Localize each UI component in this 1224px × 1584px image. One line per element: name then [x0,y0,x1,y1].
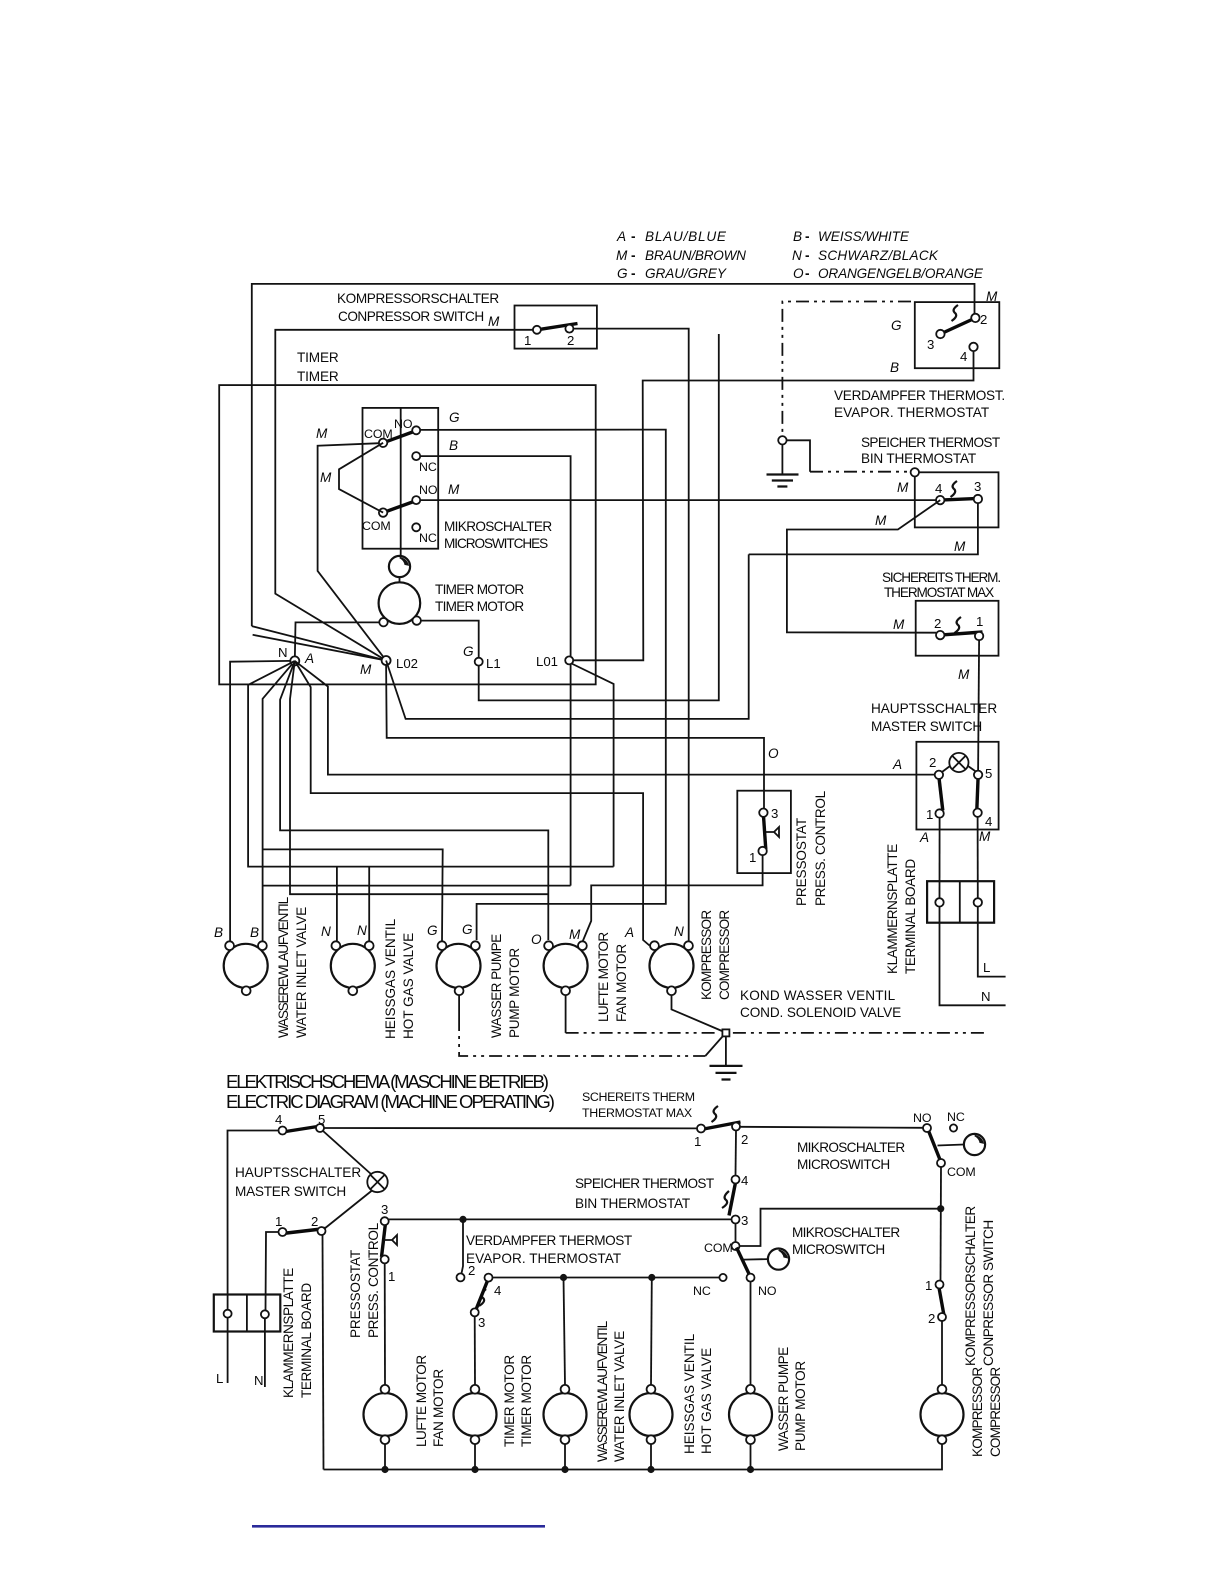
terminal M5 bottom [667,986,676,995]
wire bin 3 down to microswitch COM [735,1224,737,1243]
svg-text:VERDAMPFER THERMOST: VERDAMPFER THERMOST [466,1233,632,1248]
svg-text:B: B [890,360,899,375]
wire N heissgas right terminal drop [368,867,370,941]
pressostat blade 3-1 [763,815,765,850]
wire A master 1 to terminal board [939,818,941,898]
terminal verdampfer 3 [936,330,944,338]
terminal board circle M [974,898,982,906]
switch blade S1 [537,324,578,330]
svg-text:G: G [463,644,474,659]
actuator blob upper ms [938,1134,986,1155]
terminal water inlet lower bottom [561,1435,570,1444]
svg-text:1: 1 [275,1214,282,1229]
wire COM down through junction to compressor switch 1 [940,1167,943,1281]
svg-text:TIMER: TIMER [297,350,339,365]
svg-text:M: M [893,617,905,632]
wire M second diagonal to node L02 [253,635,387,661]
terminal master lower 2 [318,1227,326,1235]
terminal U1 COM2 [379,508,387,516]
terminal M5 right [684,941,693,950]
svg-text:WEISS/WHITE: WEISS/WHITE [818,229,910,244]
svg-text:M: M [875,513,887,528]
terminal U1 NC1 [412,452,420,460]
wire drop to water inlet valve motor [564,1278,566,1386]
terminal M1 bottom [242,986,251,995]
svg-text:M: M [316,426,328,441]
svg-text:HAUPTSSCHALTER: HAUPTSSCHALTER [871,701,997,716]
capillary dash-dot verdampfer to sensor bulb [782,302,911,437]
svg-text:NO: NO [913,1111,932,1125]
svg-text:CONPRESSOR SWITCH: CONPRESSOR SWITCH [981,1220,996,1366]
wire B node N fan ray to motor1 left [230,661,290,941]
svg-text:COMPRESSOR: COMPRESSOR [717,910,732,1000]
decoration blue rule [252,1525,545,1528]
svg-text:MICROSWITCHES: MICROSWITCHES [444,536,548,551]
svg-text:TIMER MOTOR: TIMER MOTOR [435,582,524,597]
terminal pressostat lower 1 [381,1255,389,1263]
microswitch blade NO-COM [928,1130,941,1162]
svg-text:2: 2 [980,312,987,327]
wire L master 4 to terminal board lower [228,1131,279,1311]
terminal master 2 [935,771,943,779]
svg-text:SPEICHER THERMOST: SPEICHER THERMOST [575,1176,714,1191]
wire verdampfer lower 3 to timer motor [474,1316,476,1385]
wire G from NO1 to pump motor right terminal [420,430,666,940]
svg-text:1: 1 [388,1269,395,1284]
wire water pump left terminal row [263,849,443,941]
pressostat S3 pressure control [737,791,791,873]
terminal master lower 1 [279,1228,287,1236]
svg-text:3: 3 [741,1213,748,1228]
node L1 terminal [463,644,501,671]
svg-text:PRESSOSTAT: PRESSOSTAT [794,818,809,906]
node L01 terminal [536,654,573,669]
wire B from NC1 through L01 down to row [420,456,570,885]
safety thermostat B4 sichereits [882,570,1001,656]
svg-text:NC: NC [419,531,437,545]
svg-text:M: M [320,470,332,485]
terminal M3 right [471,941,480,950]
svg-text:M: M [897,480,909,495]
svg-text:2: 2 [567,333,574,348]
svg-text:L: L [216,1371,223,1386]
terminal safety lower 1 [697,1125,705,1133]
terminal verdampfer 4 [969,343,977,351]
svg-text:NC: NC [419,460,437,474]
terminal safety lower 2 [732,1123,740,1131]
wire drop to hot gas valve motor [650,1278,653,1386]
master switch S2b lower [235,1112,361,1229]
svg-text:L1: L1 [486,656,501,671]
terminal hot gas lower bottom [647,1435,656,1444]
wire pressostat 1 to fan motor right terminal [582,855,762,942]
svg-text:G: G [617,266,628,281]
master lower blade 4-5 [283,1126,325,1133]
svg-text:HEISSGAS VENTIL: HEISSGAS VENTIL [682,1333,697,1454]
junction dot bus water inlet [561,1466,568,1473]
svg-text:B: B [250,925,259,940]
wire master 1 to terminal board lower [266,1232,279,1311]
microswitch 1 labels COM NO NC [364,410,460,474]
svg-text:-: - [631,266,635,281]
svg-text:MASTER SWITCH: MASTER SWITCH [871,719,982,734]
svg-text:A: A [616,229,626,244]
svg-text:KOMPRESSOR: KOMPRESSOR [699,910,714,1000]
svg-text:1: 1 [976,614,983,629]
svg-text:ELEKTRISCHSCHEMA (MASCHINE BET: ELEKTRISCHSCHEMA (MASCHINE BETRIEB) [226,1071,549,1092]
svg-text:2: 2 [741,1132,748,1147]
wire master 2 down to bottom bus [323,1235,324,1470]
terminal sichereits 2 [936,631,944,639]
svg-text:L: L [983,960,990,975]
svg-text:COM: COM [364,427,393,441]
terminal bin lower 3 [732,1216,740,1224]
wire M bin terminal 4 diagonal to safety thermostat terminal 2 [787,500,940,633]
svg-text:COMPRESSOR: COMPRESSOR [988,1367,1003,1457]
ground sensor verdampfer [767,445,799,487]
svg-text:VERDAMPFER THERMOST.: VERDAMPFER THERMOST. [834,388,1005,403]
svg-text:NO: NO [394,417,413,431]
svg-text:M: M [979,829,991,844]
wire pressostat lower 1 to fan motor [384,1263,386,1385]
svg-text:3: 3 [771,806,778,821]
wire safety 2 to microswitch NO [740,1127,923,1128]
terminal M4 left [544,941,553,950]
svg-text:5: 5 [985,766,992,781]
svg-text:TIMER: TIMER [297,369,339,384]
pressostat lower [348,1202,395,1338]
blade compressor switch lower [939,1286,944,1316]
water inlet valve M1 [214,896,309,1038]
verdampfer thermostat B2 evaporator [834,302,1005,420]
squiggle verdampfer lower [479,1289,486,1306]
svg-text:-: - [631,229,635,244]
terminal master lower 5 [316,1124,324,1132]
svg-text:3: 3 [974,479,981,494]
svg-text:SPEICHER THERMOST: SPEICHER THERMOST [861,435,1000,450]
svg-text:3: 3 [478,1315,485,1330]
wire junction to COM of lower microswitch [740,1209,941,1246]
svg-text:LUFTE MOTOR: LUFTE MOTOR [596,932,611,1022]
wire NC row from verdampfer 4 [492,1277,719,1279]
wire M bin terminal 3 down and left [749,503,978,554]
bottom neutral bus [324,1444,943,1469]
svg-text:4: 4 [985,814,992,829]
terminal U1 NO2 [412,496,420,504]
terminal master 5 [974,771,982,779]
hot gas valve M2 [321,918,416,1039]
water pump motor M3 [427,922,522,1038]
svg-text:COM: COM [362,519,391,533]
terminal U1 NO1 [412,426,420,434]
svg-text:A: A [892,757,902,772]
svg-text:MIKROSCHALTER: MIKROSCHALTER [792,1225,900,1240]
title electric diagram machine operating [226,1071,555,1112]
pilot lamp master switch [942,753,977,772]
svg-text:SICHEREITS THERM.: SICHEREITS THERM. [882,570,1001,585]
terminal NC lower ms open [719,1274,726,1281]
svg-text:4: 4 [960,349,967,364]
svg-text:L01: L01 [536,654,558,669]
hot gas valve lower [630,1333,715,1454]
svg-text:HAUPTSSCHALTER: HAUPTSSCHALTER [235,1165,361,1180]
svg-text:LUFTE MOTOR: LUFTE MOTOR [414,1355,429,1447]
wire M diagonal outer left edge to node L02 [252,626,386,660]
terminal verdampfer lower 2 [457,1273,465,1281]
wire junction down to verdampfer 2 [462,1219,464,1273]
svg-text:L02: L02 [396,656,418,671]
terminal pressostat 3 [759,809,767,817]
compressor switch lower [925,1206,996,1366]
svg-text:O: O [793,266,804,281]
wire M from S1-1 left and down to L02 [275,330,533,661]
terminal bin 3 [974,495,982,503]
terminal pressostat lower 3 [381,1217,389,1225]
terminal pump lower top [746,1385,755,1394]
svg-text:2: 2 [928,1311,935,1326]
terminal timer lower bottom [471,1435,480,1444]
svg-text:G: G [449,410,460,425]
svg-text:PRESS. CONTROL: PRESS. CONTROL [366,1222,381,1338]
svg-text:M: M [448,482,460,497]
svg-text:B: B [793,229,802,244]
svg-text:MICROSWITCH: MICROSWITCH [792,1242,885,1257]
terminal verdampfer lower 3 [471,1308,479,1316]
wire L lead [216,1318,228,1386]
terminal M4 right [578,941,587,950]
microswitch 2 blade COM-NO [383,500,418,513]
microswitches box U1 [363,408,553,551]
terminal M1 left [225,941,234,950]
terminal board lower circle N [261,1310,269,1318]
terminal pump lower bottom [746,1435,755,1444]
svg-text:N: N [792,248,802,263]
svg-text:A: A [304,651,314,666]
terminal M5 left [650,941,659,950]
svg-text:KLAMMERNSPLATTE: KLAMMERNSPLATTE [885,844,900,974]
fan motor lower [364,1355,447,1447]
svg-text:A: A [919,830,929,845]
safety lower blade 1-2 [701,1122,741,1130]
svg-text:TIMER MOTOR: TIMER MOTOR [519,1355,534,1447]
pilot lamp lower [367,1172,387,1192]
junction dot verdampfer feed [459,1216,466,1223]
terminal water inlet lower top [561,1385,570,1394]
svg-text:BIN THERMOSTAT: BIN THERMOSTAT [575,1196,690,1211]
terminal NO upper ms [923,1124,931,1132]
terminal board circle A [935,898,943,906]
svg-text:PUMP MOTOR: PUMP MOTOR [793,1361,808,1451]
terminal timer lower top [471,1385,480,1394]
junction dot bus hot gas [647,1466,654,1473]
terminal M2 bottom [348,986,357,995]
wire A node N fan ray to master switch terminal 2 [295,661,935,775]
terminal verdampfer lower 4 [485,1274,493,1282]
master blade 5-4 [977,777,978,811]
svg-text:1: 1 [926,807,933,822]
wire O node N fan ray to fan motor left terminal [280,661,548,940]
wire N heissgas left terminal drop [336,867,338,941]
wire M from L02 up to COM1 [316,426,386,661]
wire N lead [254,1319,265,1389]
svg-text:COM: COM [704,1241,733,1255]
svg-text:FAN MOTOR: FAN MOTOR [614,944,629,1022]
microswitch upper lower-diagram [797,1110,976,1179]
microswitch 2 labels COM NO NC [362,482,460,545]
svg-text:KLAMMERNSPLATTE: KLAMMERNSPLATTE [281,1268,296,1398]
verdampfer thermostat lower [466,1233,632,1330]
svg-text:WATER INLET VALVE: WATER INLET VALVE [612,1331,627,1462]
node N junction [278,645,314,666]
water inlet valve lower [544,1320,628,1462]
pressostat actuator [766,827,779,837]
terminal board lower [214,1268,314,1398]
terminal NO lower ms [747,1274,755,1282]
terminal COM upper ms [937,1159,945,1167]
svg-text:EVAPOR. THERMOSTAT: EVAPOR. THERMOSTAT [834,405,989,420]
junction dot bus fan [381,1466,388,1473]
capillary dash-dot to bin thermostat bulb [787,440,911,471]
wire M COM1 to COM2 jumper bracket [320,443,383,513]
compressor lower [921,1367,1004,1457]
svg-text:M: M [569,927,581,942]
terminal sichereits 1 [975,632,983,640]
terminal U1 COM1 [379,439,387,447]
terminal COM lower ms [732,1242,740,1250]
svg-text:TIMER MOTOR: TIMER MOTOR [502,1355,517,1447]
svg-text:HEISSGAS VENTIL: HEISSGAS VENTIL [383,918,398,1039]
terminal compressor lower top [938,1385,947,1394]
bin blade 4-3 [940,498,981,500]
master switch S2 hauptsschalter [871,701,999,845]
terminal compr switch lower 1 [936,1281,944,1289]
svg-text:TIMER MOTOR: TIMER MOTOR [435,599,524,614]
svg-text:NC: NC [693,1284,711,1298]
svg-text:KOMPRESSORSCHALTER: KOMPRESSORSCHALTER [963,1206,978,1366]
terminal master 4 [973,809,981,817]
bin thermostat B3 speicher [861,435,1000,527]
terminal board klammernsplatte upper [885,844,994,974]
svg-text:4: 4 [935,481,942,496]
svg-text:N: N [321,924,331,939]
svg-text:NC: NC [947,1110,965,1124]
terminal NC upper ms [950,1124,957,1131]
wire B row to motor1 right terminal [263,885,571,887]
wire M sichereits 1 down to master switch terminal 5 [958,640,979,771]
svg-text:4: 4 [741,1173,748,1188]
svg-text:1: 1 [749,850,756,865]
svg-text:WASSEREWLAUFVENTIL: WASSEREWLAUFVENTIL [276,896,291,1038]
timer motor B1 [379,582,525,624]
svg-text:2: 2 [468,1263,475,1278]
wire row pressostat 3 to bin 3 [389,1218,732,1220]
svg-text:-: - [805,248,809,263]
terminal master 1 [935,809,943,817]
svg-text:2: 2 [311,1214,318,1229]
wire master 5 to lamp to master 2 [323,1131,373,1230]
wire node N ray to motor1 right vertical [263,661,295,941]
thermostat squiggle verdampfer [952,305,959,321]
wire M top bus from outer left edge to verdampfer terminal 2 [252,284,998,626]
timer cam with arrow [389,549,410,583]
svg-text:4: 4 [275,1112,282,1127]
svg-text:PRESS. CONTROL: PRESS. CONTROL [813,790,828,906]
svg-text:TERMINAL BOARD: TERMINAL BOARD [299,1283,314,1398]
wire L out of terminal board [978,907,1006,977]
svg-text:B: B [449,438,458,453]
terminal S1-2 [565,325,573,333]
svg-text:G: G [427,923,438,938]
svg-text:BIN THERMOSTAT: BIN THERMOSTAT [861,451,976,466]
svg-text:ELECTRIC DIAGRAM (MACHINE OPER: ELECTRIC DIAGRAM (MACHINE OPERATING) [226,1091,555,1112]
svg-text:KOMPRESSOR: KOMPRESSOR [970,1367,985,1457]
terminal board lower circle L [224,1310,232,1318]
svg-text:O: O [531,932,542,947]
pressostat lower actuator [384,1235,397,1245]
sichereits blade 2-1 [940,632,982,635]
svg-text:3: 3 [927,337,934,352]
svg-text:M: M [488,314,500,329]
bin thermostat lower speicher [575,1173,748,1228]
svg-text:A: A [624,925,634,940]
terminal M1 right [258,941,267,950]
svg-text:WASSER PUMPE: WASSER PUMPE [489,934,504,1038]
verdampfer blade 3-2 [940,317,978,335]
svg-text:1: 1 [524,333,531,348]
svg-text:M: M [954,539,966,554]
microswitch lower lower-diagram [693,1225,900,1298]
water pump lower [729,1347,808,1451]
svg-text:NO: NO [758,1284,777,1298]
terminal M3 bottom [455,986,464,995]
wire NO lower ms down to pump motor [750,1282,752,1385]
svg-text:N: N [674,924,684,939]
node L02 terminal [360,656,418,677]
svg-text:BLAU/BLUE: BLAU/BLUE [645,229,727,244]
svg-text:WATER INLET VALVE: WATER INLET VALVE [294,907,309,1038]
wire G timer motor right terminal to L1 [421,334,719,700]
svg-text:COM: COM [947,1165,976,1179]
terminal M3 left [438,941,447,950]
label kond wasser ventil [740,988,901,1020]
svg-text:3: 3 [381,1202,388,1217]
terminal fan lower bottom [381,1435,390,1444]
wire compr switch 2 to compressor motor [941,1321,943,1385]
svg-text:MIKROSCHALTER: MIKROSCHALTER [444,519,552,534]
junction dot bus pump [747,1466,754,1473]
svg-text:EVAPOR. THERMOSTAT: EVAPOR. THERMOSTAT [466,1251,621,1266]
terminal S1-1 [533,326,541,334]
svg-text:FAN MOTOR: FAN MOTOR [431,1369,446,1447]
wire M L02 diagonal to bin thermostat row [386,554,749,719]
svg-text:MIKROSCHALTER: MIKROSCHALTER [797,1140,905,1155]
pressostat label vertical [794,790,828,906]
wire A node N fan ray to compressor motor left [295,661,650,946]
compressor motor M5 [624,910,732,1000]
svg-text:CONPRESSOR SWITCH: CONPRESSOR SWITCH [338,309,484,324]
svg-text:N: N [278,645,288,660]
ground cond solenoid [710,1036,743,1079]
svg-text:THERMOSTAT MAX: THERMOSTAT MAX [582,1106,692,1120]
timer TIMER outer box [219,350,596,684]
svg-text:N: N [254,1373,264,1388]
svg-text:BRAUN/BROWN: BRAUN/BROWN [645,248,746,263]
pressostat lower blade 3-1 [382,1223,386,1257]
junction node cond solenoid valve [722,1029,729,1036]
wire node N fan ray middle to fan motor left row [290,661,548,894]
svg-text:1: 1 [694,1134,701,1149]
svg-text:N: N [357,923,367,938]
